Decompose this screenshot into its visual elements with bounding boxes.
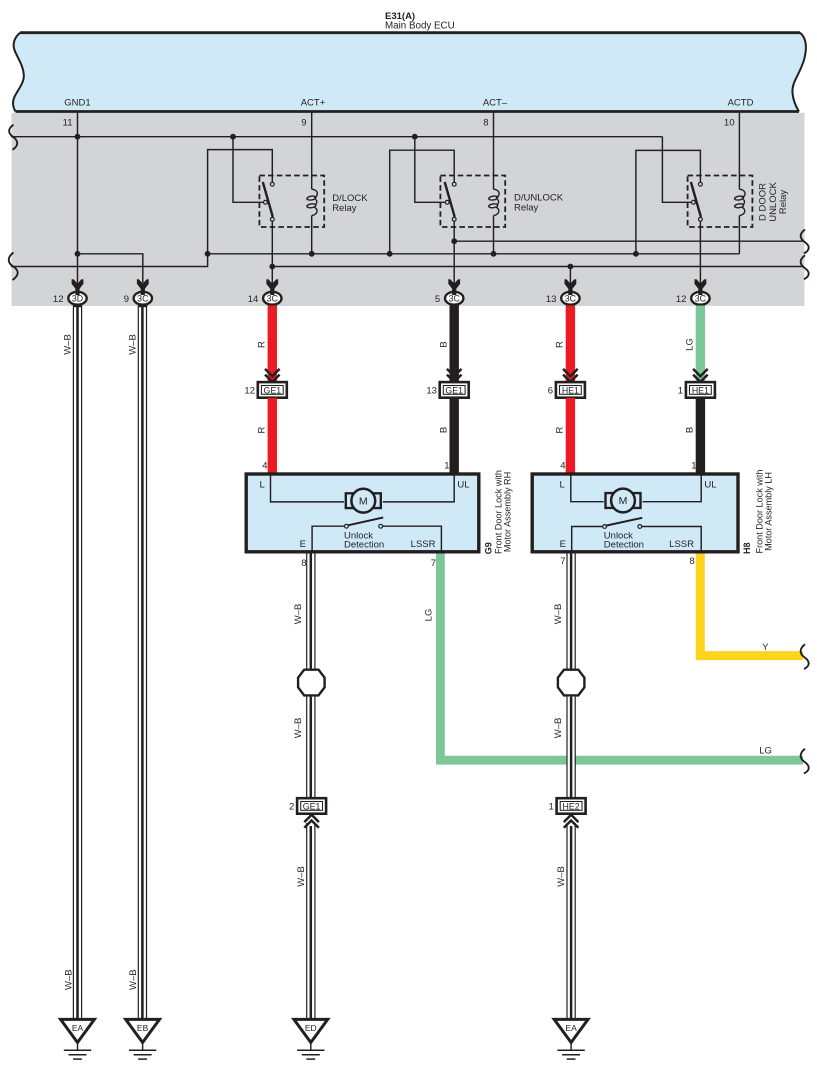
- wire riser relay2 middle contact: [415, 137, 445, 203]
- wire motor to UL: [643, 475, 702, 502]
- bus line D segment 2: [272, 266, 803, 268]
- svg-text:EB: EB: [137, 1023, 149, 1033]
- relay D/UNLOCK coil: [488, 189, 499, 215]
- bus line B: [454, 240, 804, 242]
- wire coil1 bottom to bus C: [311, 216, 313, 254]
- svg-text:H8: H8: [742, 543, 752, 555]
- svg-text:9: 9: [124, 294, 129, 305]
- wire riser relay3 top contact: [636, 150, 701, 253]
- gray harness band: [12, 113, 805, 306]
- svg-text:E: E: [560, 539, 566, 550]
- svg-text:E: E: [300, 539, 306, 550]
- svg-text:LSSR: LSSR: [669, 539, 694, 550]
- svg-text:HE2: HE2: [563, 801, 580, 811]
- svg-text:B: B: [685, 427, 696, 433]
- svg-text:R: R: [555, 426, 566, 433]
- svg-text:L: L: [260, 480, 265, 491]
- junction bus B / relay2 output: [451, 238, 457, 244]
- svg-text:1: 1: [549, 802, 554, 813]
- bus line C segment 1: [78, 254, 143, 283]
- motor M LH: [611, 489, 635, 513]
- relay D/LOCK dashed box: [259, 176, 324, 228]
- bus line A corner to relay3 middle contact: [662, 137, 691, 203]
- wire relay1 switch output to connector 14: [271, 221, 273, 291]
- svg-text:8: 8: [301, 558, 306, 569]
- svg-text:12: 12: [244, 386, 255, 397]
- svg-text:ACT–: ACT–: [483, 98, 508, 109]
- arrow into HE1: [563, 369, 578, 382]
- wire riser relay2 top contact: [390, 150, 455, 254]
- wire LG from connector 12 to HE1: [696, 306, 705, 383]
- svg-text:9: 9: [301, 118, 306, 129]
- svg-text:1: 1: [691, 461, 696, 472]
- door lock motor assembly LH box H8: [532, 474, 738, 552]
- svg-text:Relay: Relay: [514, 203, 539, 214]
- bus line C segment 2: [208, 253, 740, 255]
- arrow into GE1: [265, 369, 280, 382]
- junction bus A / relay2 middle riser: [412, 134, 418, 140]
- svg-text:4: 4: [262, 461, 267, 472]
- svg-text:1: 1: [444, 461, 449, 472]
- ground ED: [294, 1019, 328, 1059]
- wire riser relay1 top contact: [208, 150, 273, 254]
- svg-text:13: 13: [426, 386, 437, 397]
- ECU band E31(A) Main Body ECU: [13, 33, 806, 112]
- wire R from connector 14 to GE1: [268, 306, 277, 383]
- connector oval 12 3D: [53, 289, 87, 308]
- svg-text:W–B: W–B: [63, 334, 74, 355]
- svg-text:4: 4: [560, 461, 565, 472]
- bus line A (ground bus): [11, 136, 662, 138]
- svg-text:Main Body ECU: Main Body ECU: [385, 21, 455, 32]
- svg-text:3D: 3D: [72, 293, 83, 303]
- wire riser relay1 middle contact: [233, 137, 263, 203]
- wire coil3 bottom to bus C: [738, 216, 740, 254]
- svg-text:ACTD: ACTD: [728, 98, 754, 109]
- relay D/UNLOCK switch: [445, 182, 456, 221]
- wire Y from LH LSSR pin 8 to right edge: [700, 554, 803, 656]
- bus line D segment 1: [11, 254, 208, 267]
- svg-text:7: 7: [560, 556, 565, 567]
- svg-text:Motor Assembly RH: Motor Assembly RH: [503, 472, 513, 552]
- svg-text:Y: Y: [762, 642, 769, 653]
- svg-text:HE1: HE1: [562, 385, 579, 395]
- svg-text:L: L: [560, 480, 565, 491]
- svg-text:GE1: GE1: [445, 385, 463, 395]
- svg-text:UL: UL: [457, 480, 469, 491]
- svg-text:G9: G9: [484, 542, 494, 554]
- relay D/UNLOCK dashed box: [440, 176, 505, 228]
- connector 1 HE1: [678, 382, 715, 398]
- svg-text:LG: LG: [424, 609, 435, 622]
- svg-text:LSSR: LSSR: [411, 539, 436, 550]
- ground EA left: [61, 1019, 95, 1059]
- wire motor to UL: [383, 475, 454, 502]
- svg-text:R: R: [555, 341, 566, 348]
- svg-text:B: B: [438, 341, 449, 347]
- wire R from connector 13 to HE1: [566, 306, 575, 383]
- ground EA right: [554, 1019, 588, 1059]
- svg-text:11: 11: [63, 118, 73, 129]
- svg-text:12: 12: [53, 294, 64, 305]
- relay D DOOR UNLOCK label (rotated): [758, 182, 790, 222]
- svg-text:3C: 3C: [695, 293, 707, 303]
- wire GND1 pin 11: [77, 112, 79, 291]
- connector 12 GE1: [244, 382, 286, 398]
- svg-text:R: R: [257, 426, 268, 433]
- svg-text:Detection: Detection: [344, 540, 384, 551]
- wire W-B LH middle segment: [567, 697, 575, 799]
- svg-text:M: M: [619, 495, 628, 507]
- svg-text:W–B: W–B: [296, 866, 307, 887]
- wire W-B RH E pin 8 upper segment: [307, 554, 315, 669]
- wire ACT+ pin 9 to coil1: [311, 112, 313, 189]
- torn mark gray band right 2: [801, 255, 809, 279]
- relay D DOOR UNLOCK switch: [691, 182, 702, 221]
- svg-text:B: B: [438, 427, 449, 433]
- svg-text:3C: 3C: [137, 293, 149, 303]
- svg-text:HE1: HE1: [692, 385, 709, 395]
- svg-text:Relay: Relay: [332, 203, 357, 214]
- unlock detection switch LH: [572, 527, 603, 553]
- junction bus C / relay2 top riser: [387, 251, 393, 257]
- svg-text:10: 10: [724, 118, 735, 129]
- wire B from GE1 to door lock RH pin 1: [450, 398, 459, 473]
- svg-text:EA: EA: [72, 1023, 84, 1033]
- svg-text:2: 2: [289, 802, 294, 813]
- connector arrows above ovals: [72, 279, 707, 291]
- junction bus C / relay1 top riser: [205, 251, 211, 257]
- svg-text:12: 12: [676, 294, 687, 305]
- wire ACT- pin 8 to coil2: [493, 112, 495, 189]
- svg-text:Detection: Detection: [604, 540, 644, 551]
- torn mark LG wire end: [801, 749, 809, 774]
- junction bus C / coil1 return: [309, 251, 315, 257]
- relay D DOOR UNLOCK coil: [734, 189, 745, 215]
- connector 6 HE1: [548, 382, 585, 398]
- junction bus D / relay1 output: [269, 264, 275, 270]
- wire L to motor: [571, 475, 604, 502]
- svg-text:8: 8: [690, 556, 695, 567]
- junction bus A / relay1 middle riser: [230, 134, 236, 140]
- octagon connector RH: [298, 670, 325, 696]
- svg-text:UL: UL: [704, 480, 716, 491]
- svg-text:W–B: W–B: [293, 604, 304, 625]
- wire ACTD pin 10 to coil3: [738, 112, 740, 189]
- wire relay2 switch output to connector 5: [453, 221, 455, 291]
- wire L to motor: [271, 475, 345, 502]
- svg-text:W–B: W–B: [553, 604, 564, 625]
- relay D DOOR UNLOCK dashed box: [688, 176, 753, 228]
- wire bus D to connector 13: [569, 267, 571, 292]
- relay D/LOCK switch: [263, 182, 274, 221]
- svg-text:3C: 3C: [565, 293, 577, 303]
- wire B from connector 5 to GE1: [450, 306, 459, 383]
- label Front Door Lock with Motor Assembly RH: [494, 470, 513, 554]
- svg-text:Motor Assembly LH: Motor Assembly LH: [763, 472, 773, 551]
- door lock motor assembly RH box G9: [246, 474, 479, 552]
- svg-text:ACT+: ACT+: [301, 98, 326, 109]
- svg-text:13: 13: [546, 294, 557, 305]
- svg-text:W–B: W–B: [553, 718, 564, 739]
- connector oval 12 3C: [676, 289, 710, 308]
- connector 1 HE2: [549, 798, 586, 814]
- junction GND1 / bus A: [75, 134, 81, 140]
- wire W-B LH E pin 7 upper segment: [567, 554, 575, 669]
- torn mark gray band left 1: [9, 125, 17, 150]
- svg-text:14: 14: [248, 294, 259, 305]
- svg-text:M: M: [359, 495, 368, 507]
- arrow up into HE2: [564, 815, 579, 828]
- svg-text:GND1: GND1: [64, 98, 90, 109]
- svg-text:7: 7: [431, 558, 436, 569]
- relay D/LOCK coil: [312, 189, 318, 198]
- motor M RH: [351, 489, 375, 513]
- svg-text:EA: EA: [565, 1023, 577, 1033]
- wire R from GE1 to door lock RH pin 4: [268, 398, 277, 473]
- junction bus C / relay3 top riser: [633, 251, 639, 257]
- svg-text:LG: LG: [685, 338, 696, 351]
- svg-text:GE1: GE1: [263, 385, 281, 395]
- arrow up into GE1: [304, 815, 319, 828]
- wire W-B LH lower segment to ground EA: [567, 823, 575, 1018]
- wire W-B RH lower segment to ground ED: [307, 823, 315, 1018]
- wire W-B from connector 9 3C to ground EB: [138, 306, 146, 1019]
- wire relay3 switch output to connector 12: [699, 221, 701, 291]
- junction bus C / coil2 return: [491, 251, 497, 257]
- wire W-B from connector 12 3D to ground EA: [73, 306, 81, 1019]
- wire R from HE1 to door lock LH pin 4: [566, 398, 575, 473]
- connector oval 5 3C: [435, 289, 463, 308]
- connector oval 14 3C: [248, 289, 282, 308]
- arrow into GE1: [447, 369, 462, 382]
- torn mark gray band right 1: [801, 230, 809, 254]
- octagon connector LH: [558, 670, 585, 696]
- connector oval 13 3C: [546, 289, 580, 308]
- svg-text:W–B: W–B: [556, 866, 567, 887]
- svg-text:W–B: W–B: [128, 969, 139, 990]
- svg-text:GE1: GE1: [303, 801, 321, 811]
- label Front Door Lock with Motor Assembly LH: [754, 470, 773, 554]
- wire LG from RH LSSR pin 7 to right edge: [440, 554, 803, 761]
- wire B from HE1 to door lock LH pin 1: [696, 398, 705, 473]
- svg-text:LG: LG: [759, 746, 772, 757]
- connector 13 GE1: [426, 382, 468, 398]
- svg-text:1: 1: [678, 386, 683, 397]
- connector oval 9 3C: [124, 289, 152, 308]
- svg-text:6: 6: [548, 386, 553, 397]
- ground EB: [126, 1019, 160, 1059]
- junction bus D / connector 13 feed: [568, 264, 574, 270]
- svg-text:3C: 3C: [267, 293, 279, 303]
- svg-text:W–B: W–B: [63, 969, 74, 990]
- svg-text:3C: 3C: [449, 293, 461, 303]
- junction GND1 / bus C: [75, 251, 81, 257]
- unlock detection switch RH: [312, 526, 344, 552]
- torn mark gray band left 2: [9, 253, 18, 281]
- svg-text:8: 8: [483, 118, 488, 129]
- arrow into HE1: [693, 369, 708, 382]
- svg-text:Relay: Relay: [778, 190, 789, 215]
- svg-text:5: 5: [435, 294, 440, 305]
- svg-text:W–B: W–B: [293, 718, 304, 739]
- wire coil2 bottom to bus C: [493, 216, 495, 254]
- svg-text:R: R: [257, 341, 268, 348]
- svg-text:W–B: W–B: [127, 334, 138, 355]
- wire W-B RH middle segment: [307, 697, 315, 799]
- svg-text:ED: ED: [305, 1023, 317, 1033]
- torn mark Y wire end: [801, 644, 809, 669]
- connector 2 GE1: [289, 798, 326, 814]
